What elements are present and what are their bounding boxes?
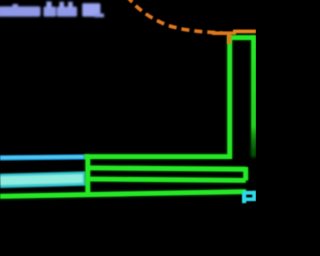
- blue trace (left horizontal): [0, 157, 87, 158]
- wire: upper horizontal trace: [85, 154, 232, 159]
- pad/label P (cyan glyph, bottom right): [242, 191, 256, 203]
- wire: middle horizontal trace A: [87, 168, 246, 169]
- background canvas: [0, 0, 256, 256]
- wire: long bottom horizontal trace: [0, 192, 246, 197]
- wire: junction vertical bar: [85, 154, 90, 195]
- net name text (blurred periwinkle status text, top-left): [0, 2, 104, 18]
- ratsnest stub overlapping trace corner: [227, 33, 231, 44]
- wire: right hook joining A and B: [243, 167, 248, 181]
- wire: right edge of tall trace box (fades): [251, 35, 256, 157]
- green net (outline of wide traces): [0, 35, 256, 196]
- wire: left edge of tall trace box: [227, 35, 232, 159]
- green trace glow halo: [0, 38, 256, 197]
- cyan wide trace bar: [0, 178, 86, 181]
- wire: middle horizontal trace B: [87, 179, 246, 180]
- wire: top edge of tall trace box: [228, 35, 256, 40]
- ratsnest curve (orange dashed): [127, 0, 256, 35]
